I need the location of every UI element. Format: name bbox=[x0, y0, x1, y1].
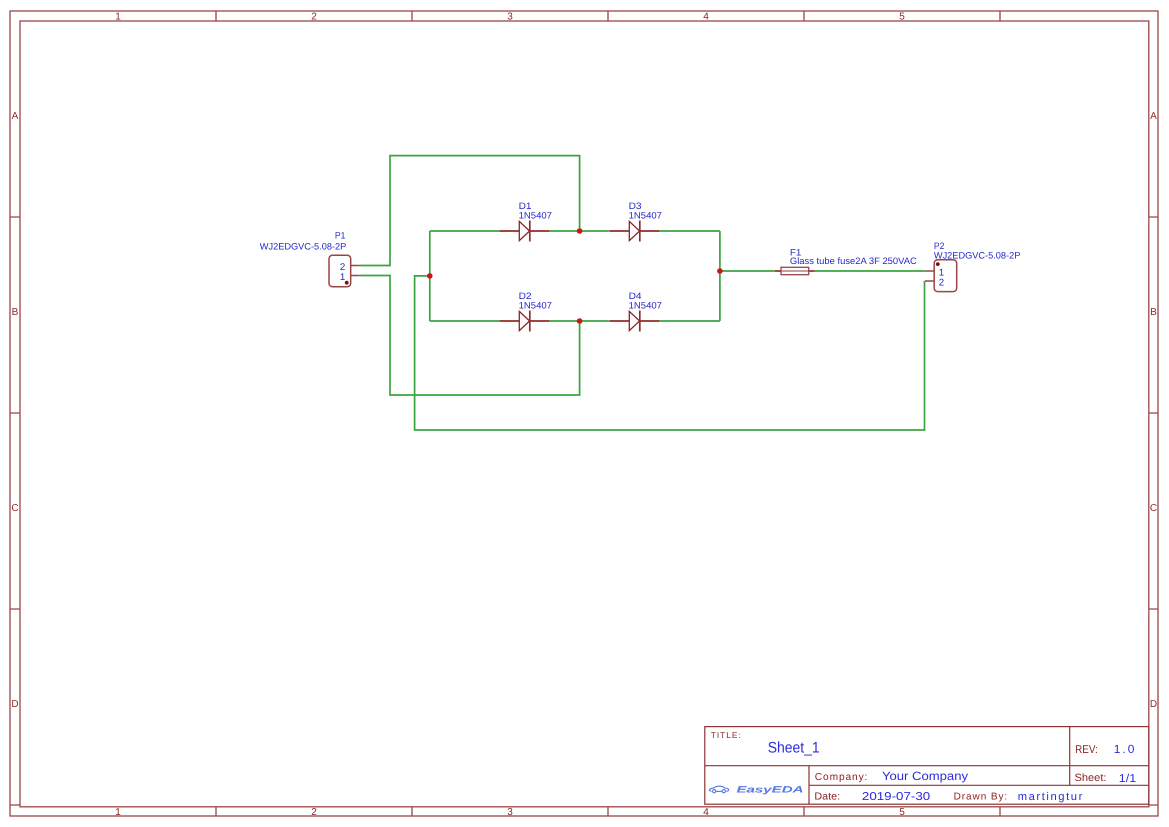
svg-text:1N5407: 1N5407 bbox=[629, 210, 662, 220]
svg-text:B: B bbox=[1150, 307, 1157, 318]
junction dots bbox=[427, 228, 723, 324]
svg-text:5: 5 bbox=[899, 807, 905, 818]
svg-text:P1: P1 bbox=[335, 230, 346, 240]
svg-text:2: 2 bbox=[311, 807, 317, 818]
pin-1 marker dot P1 bbox=[345, 281, 349, 285]
svg-text:2019-07-30: 2019-07-30 bbox=[862, 791, 930, 803]
svg-text:Sheet:: Sheet: bbox=[1075, 772, 1107, 784]
diode D2 symbol bbox=[500, 311, 550, 332]
svg-text:P2: P2 bbox=[934, 241, 945, 251]
svg-text:3: 3 bbox=[507, 12, 513, 23]
wire net P1.1 bottom loop bbox=[359, 276, 579, 396]
svg-text:2: 2 bbox=[939, 278, 944, 289]
svg-text:1: 1 bbox=[340, 272, 345, 283]
svg-text:3: 3 bbox=[507, 807, 513, 818]
diode D1 symbol bbox=[500, 221, 550, 242]
wire output to fuse bbox=[720, 270, 775, 272]
frame row letters left bbox=[11, 111, 18, 710]
wire left mid stub to junction bbox=[415, 276, 925, 430]
svg-text:Glass tube fuse2A 3F 250VAC: Glass tube fuse2A 3F 250VAC bbox=[790, 256, 917, 266]
svg-text:C: C bbox=[11, 503, 18, 514]
connector P2 body and pin stubs bbox=[925, 260, 957, 292]
svg-text:REV:: REV: bbox=[1075, 744, 1098, 756]
svg-text:A: A bbox=[12, 111, 19, 122]
svg-text:A: A bbox=[1150, 111, 1157, 122]
svg-text:Sheet_1: Sheet_1 bbox=[768, 740, 820, 757]
wire bridge right vertical bbox=[719, 231, 721, 321]
svg-text:1/1: 1/1 bbox=[1119, 773, 1136, 785]
svg-text:EasyEDA: EasyEDA bbox=[737, 784, 804, 794]
node junction D2-D4 bbox=[577, 318, 583, 324]
svg-text:D3: D3 bbox=[629, 201, 642, 211]
svg-text:Date:: Date: bbox=[814, 792, 840, 803]
diode D4 symbol bbox=[610, 311, 660, 332]
svg-text:Drawn By:: Drawn By: bbox=[954, 792, 1008, 803]
svg-text:5: 5 bbox=[899, 12, 905, 23]
pin-1 marker dot P2 bbox=[936, 262, 940, 266]
svg-text:D4: D4 bbox=[629, 291, 642, 301]
svg-text:WJ2EDGVC-5.08-2P: WJ2EDGVC-5.08-2P bbox=[260, 242, 347, 252]
node junction right mid bbox=[717, 268, 723, 274]
svg-text:WJ2EDGVC-5.08-2P: WJ2EDGVC-5.08-2P bbox=[934, 250, 1021, 260]
wire upper row segments bbox=[430, 230, 720, 232]
svg-text:D: D bbox=[1150, 699, 1157, 710]
svg-text:D1: D1 bbox=[519, 201, 532, 211]
svg-text:1N5407: 1N5407 bbox=[629, 301, 662, 311]
svg-text:1.0: 1.0 bbox=[1114, 742, 1135, 756]
svg-text:4: 4 bbox=[703, 12, 709, 23]
fuse F1 symbol bbox=[775, 267, 815, 274]
svg-text:1N5407: 1N5407 bbox=[519, 210, 552, 220]
svg-text:D: D bbox=[11, 699, 18, 710]
connector P1 body and pin stubs bbox=[329, 255, 359, 287]
frame row letters right bbox=[1150, 111, 1157, 710]
wire net P1.2 top loop bbox=[359, 156, 579, 266]
wire fuse to P2 bbox=[815, 270, 925, 272]
svg-text:B: B bbox=[12, 307, 19, 318]
svg-text:Company:: Company: bbox=[815, 772, 868, 783]
frame column numbers bottom bbox=[115, 807, 905, 818]
node junction D1-D3 bbox=[577, 228, 583, 234]
svg-text:1: 1 bbox=[115, 12, 121, 23]
svg-text:D2: D2 bbox=[519, 291, 532, 301]
svg-text:4: 4 bbox=[703, 807, 709, 818]
svg-text:C: C bbox=[1150, 503, 1157, 514]
svg-text:1N5407: 1N5407 bbox=[519, 301, 552, 311]
wire bridge left vertical bbox=[429, 231, 431, 321]
wire lower row segments bbox=[430, 320, 720, 322]
svg-text:TITLE:: TITLE: bbox=[711, 730, 741, 740]
svg-text:Your Company: Your Company bbox=[882, 769, 968, 783]
node junction left mid bbox=[427, 273, 433, 279]
svg-text:2: 2 bbox=[311, 12, 317, 23]
EasyEDA logo bbox=[709, 786, 728, 793]
diode D3 symbol bbox=[610, 221, 660, 242]
frame column numbers top bbox=[115, 12, 905, 23]
svg-text:1: 1 bbox=[115, 807, 121, 818]
